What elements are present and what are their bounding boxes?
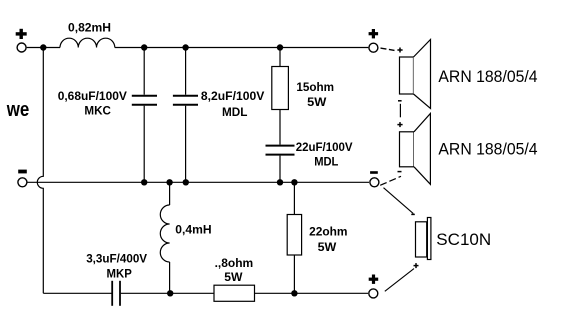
wire top bus right segment	[115, 47, 368, 49]
terminal T5 plus output bottom	[369, 275, 379, 298]
wire T4 to tweeter minus	[384, 188, 414, 214]
svg-text:8,2uF/100V: 8,2uF/100V	[201, 89, 264, 103]
svg-text:ARN 188/05/4: ARN 188/05/4	[438, 140, 537, 159]
capacitor C1 0,68uF/100V MKC	[132, 48, 157, 183]
speaker LS2 plus mark	[397, 122, 402, 127]
terminal T3 plus output top	[369, 29, 379, 52]
svg-text:5W: 5W	[307, 95, 327, 109]
speaker LS1 minus mark	[398, 100, 402, 102]
svg-text:5W: 5W	[318, 240, 337, 254]
node dot top C2	[182, 44, 188, 50]
svg-text:22ohm: 22ohm	[309, 224, 347, 238]
node dot bus C3	[277, 179, 283, 185]
tweeter LS3 SC10N	[416, 218, 431, 260]
svg-text:0,82mH: 0,82mH	[68, 21, 111, 35]
wire minus bus	[27, 181, 369, 183]
speaker LS1 ARN 188/05/4	[400, 40, 431, 109]
tweeter minus mark	[411, 213, 415, 215]
node dot bus C2	[183, 179, 189, 185]
terminal T1 plus input	[16, 29, 27, 52]
node dot bus C1	[141, 179, 147, 185]
svg-text:ARN 188/05/4: ARN 188/05/4	[438, 67, 537, 86]
node dot bottom L2	[167, 290, 173, 296]
wire dashed T4 to speaker2 minus	[380, 176, 401, 185]
svg-text:MDL: MDL	[314, 154, 338, 168]
capacitor C4 3,3uF/400V MKP series	[112, 281, 120, 306]
node dot top-left junction	[40, 44, 46, 50]
svg-text:0,68uF/100V: 0,68uF/100V	[58, 89, 127, 103]
terminal T2 minus input	[18, 170, 27, 187]
svg-text:22uF/100V: 22uF/100V	[296, 140, 353, 154]
node dot top R1	[277, 44, 283, 50]
svg-text:.,8ohm: .,8ohm	[215, 256, 254, 270]
wire bottom bus left	[43, 292, 111, 294]
tweeter plus mark	[414, 263, 419, 268]
node dot bus R2	[291, 179, 297, 185]
node dot bus L2	[166, 179, 172, 185]
node dot top C1	[141, 44, 147, 50]
svg-text:MKC: MKC	[84, 103, 111, 117]
svg-text:MKP: MKP	[107, 267, 132, 281]
resistor R3 .,8ohm 5W	[214, 285, 255, 301]
terminal T4 minus output	[370, 171, 379, 187]
wire top bus left segment	[27, 47, 60, 49]
wire bottom bus middle	[121, 292, 214, 294]
svg-text:MDL: MDL	[222, 105, 247, 119]
resistor R2 22ohm 5W	[287, 182, 301, 293]
resistor R1 15ohm 5W	[272, 48, 289, 145]
speaker LS1 plus mark	[397, 48, 402, 53]
wire link LS1 minus to LS2 plus	[399, 104, 401, 118]
svg-text:we: we	[6, 99, 29, 121]
node dot bottom R2	[291, 290, 297, 296]
wire T5 to tweeter plus	[385, 269, 414, 292]
speaker LS2 minus mark	[398, 171, 402, 173]
speaker LS2 ARN 188/05/4	[400, 114, 431, 185]
svg-text:SC10N: SC10N	[436, 230, 491, 249]
wire dashed T3 to speaker1 plus	[381, 48, 395, 50]
inductor L2 0,4mH	[160, 182, 169, 293]
wire left vertical with hop over minus bus	[37, 48, 43, 294]
svg-text:5W: 5W	[224, 270, 243, 284]
capacitor C3 22uF/100V MDL	[266, 146, 295, 183]
wire bottom bus right	[255, 292, 369, 294]
svg-text:3,3uF/400V: 3,3uF/400V	[86, 252, 147, 266]
capacitor C2 8,2uF/100V MDL	[173, 48, 198, 183]
svg-text:0,4mH: 0,4mH	[175, 222, 211, 236]
inductor L1 0,82mH	[60, 38, 115, 47]
svg-text:15ohm: 15ohm	[296, 80, 334, 94]
